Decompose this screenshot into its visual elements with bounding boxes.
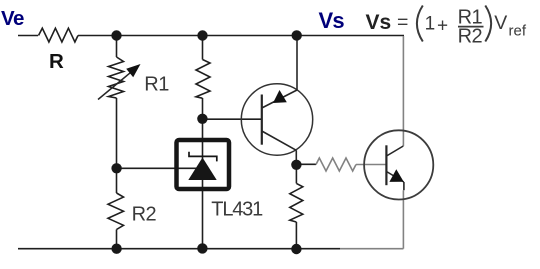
svg-text:V: V xyxy=(494,12,507,34)
svg-text:Vs: Vs xyxy=(319,8,345,33)
svg-text:+: + xyxy=(437,16,448,37)
svg-text:ref: ref xyxy=(509,23,527,40)
svg-text:TL431: TL431 xyxy=(211,198,263,220)
svg-text:R2: R2 xyxy=(458,26,483,48)
svg-text:=: = xyxy=(397,12,408,34)
svg-text:Vs: Vs xyxy=(366,11,392,34)
svg-text:R2: R2 xyxy=(132,204,157,226)
svg-text:1: 1 xyxy=(425,14,436,35)
svg-text:R1: R1 xyxy=(144,74,169,96)
svg-text:R: R xyxy=(49,50,64,73)
svg-text:Ve: Ve xyxy=(1,7,24,30)
